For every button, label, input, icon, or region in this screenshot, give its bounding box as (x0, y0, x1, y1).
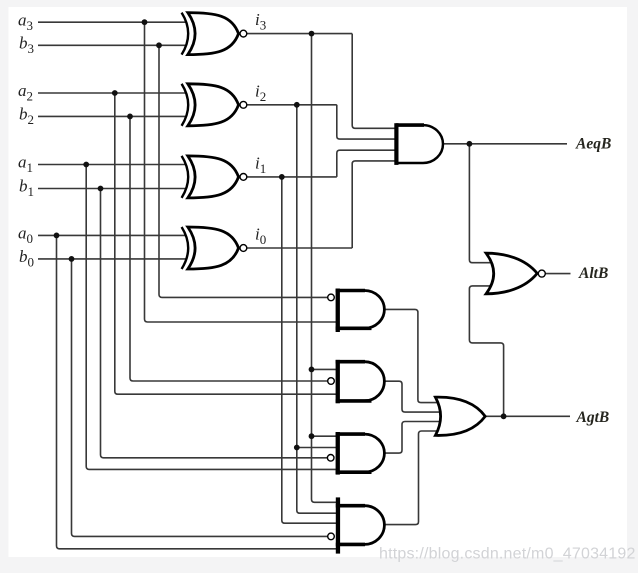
AND gate G1 (a3 AND NOT b3) (336, 289, 385, 333)
wire a0 input (38, 234, 186, 236)
bubble X0 (i0 = a0 xnor b0) output (240, 245, 247, 252)
wire b2 branch to AND2 bubble (130, 116, 329, 381)
OR gate U6 (AgtB) (435, 397, 485, 435)
node b1 junction (98, 186, 104, 192)
wire a0 branch to AND4 (57, 235, 339, 548)
wire a1 branch to AND3 (86, 165, 338, 470)
wire i3 to AND2 (312, 368, 339, 370)
wire a2 input (38, 92, 186, 94)
wire AeqB output (443, 143, 567, 145)
svg-text:AltB: AltB (578, 265, 608, 282)
wire i1 vertical bus (282, 177, 338, 523)
wire i3 to AND3 (312, 435, 339, 437)
wire a3 branch to AND1 (145, 22, 339, 322)
wire AgtB feedback to NOR input2 (469, 286, 503, 416)
wire AgtB output (485, 415, 570, 417)
XNOR gate X1 (i1 = a1 xnor b1) (182, 156, 239, 198)
wire b3 branch to AND1 bubble (159, 45, 329, 297)
XNOR gate X0 (i0 = a0 xnor b0) (182, 227, 239, 269)
wire AND2 output to OR input2 (384, 381, 442, 412)
wire b1 branch to AND3 bubble (101, 189, 329, 458)
XNOR gate X3 (i3 = a3 xnor b3) (182, 13, 239, 55)
bubble NOR output (538, 270, 545, 277)
AND gate U5 (AeqB = i3 i2 i1 i0) (394, 123, 443, 165)
wire i0 to AND-eq input4 (352, 161, 398, 248)
wire i0 output (247, 247, 352, 249)
node a0 junction (54, 233, 60, 239)
svg-text:AgtB: AgtB (576, 409, 610, 426)
wire AltB output (545, 273, 570, 275)
node i2 junction (294, 102, 300, 108)
node AgtB junction (501, 413, 507, 419)
wire AND3 output to OR input3 (384, 422, 442, 454)
bubble G1 input b3 inverted (328, 294, 335, 301)
node i3 junction (309, 31, 315, 37)
svg-text:https://blog.csdn.net/m0_47034: https://blog.csdn.net/m0_47034192 (379, 546, 636, 563)
node i3 at G3 (309, 433, 315, 439)
svg-text:AeqB: AeqB (575, 135, 611, 152)
wire i3 vertical bus (312, 34, 339, 503)
node i3 at G2 (309, 367, 315, 373)
AND gate G2 (i3 a2 NOT-b2) (336, 360, 385, 403)
wire a3 input (38, 21, 186, 23)
NOR gate U7 (AltB) (486, 253, 537, 294)
AND gate G3 (i3 i2 a1 NOT-b1) (336, 432, 385, 475)
bubble X3 (i3 = a3 xnor b3) output (240, 30, 247, 37)
wire b1 input (38, 188, 186, 190)
bubble G3 input b1 inverted (327, 455, 334, 462)
wire a1 input (38, 164, 186, 166)
wire i2 to AND3 (297, 447, 338, 449)
bubble X1 (i1 = a1 xnor b1) output (240, 174, 247, 181)
bubble G2 input b2 inverted (328, 378, 335, 385)
wire i3 output (247, 33, 352, 35)
node AeqB junction (467, 141, 473, 147)
wire i1 output (247, 176, 337, 178)
node b3 junction (156, 42, 162, 48)
bubble X2 (i2 = a2 xnor b2) output (240, 101, 247, 108)
node a2 junction (112, 90, 118, 96)
AND gate G4 (i3 i2 i1 a0 NOT-b0) (336, 497, 385, 553)
wire AND4 output to OR input4 (384, 431, 440, 525)
wire a2 branch to AND2 (115, 93, 338, 394)
wire i2 vertical bus (297, 105, 338, 513)
wire i2 output (247, 104, 337, 106)
node a1 junction (83, 162, 89, 168)
wire AND1 output to OR input1 (384, 309, 440, 402)
wire i2 to AND-eq input2 (337, 105, 398, 139)
bubble G4 input b0 inverted (328, 533, 335, 540)
wire b2 input (38, 115, 186, 117)
wire i1 to AND-eq input3 (337, 150, 398, 177)
node i2 at G3 (294, 445, 300, 451)
wire AeqB to NOR input1 (469, 144, 492, 263)
wire b3 input (38, 44, 186, 46)
node b2 junction (127, 114, 133, 120)
node b0 junction (69, 256, 75, 262)
node i1 junction (279, 174, 285, 180)
XNOR gate X2 (i2 = a2 xnor b2) (182, 84, 239, 126)
wire i3 to AND-eq input1 (352, 34, 398, 129)
wire b0 input (38, 258, 186, 260)
node a3 junction (142, 19, 148, 25)
wire b0 branch to AND4 bubble (72, 259, 329, 537)
